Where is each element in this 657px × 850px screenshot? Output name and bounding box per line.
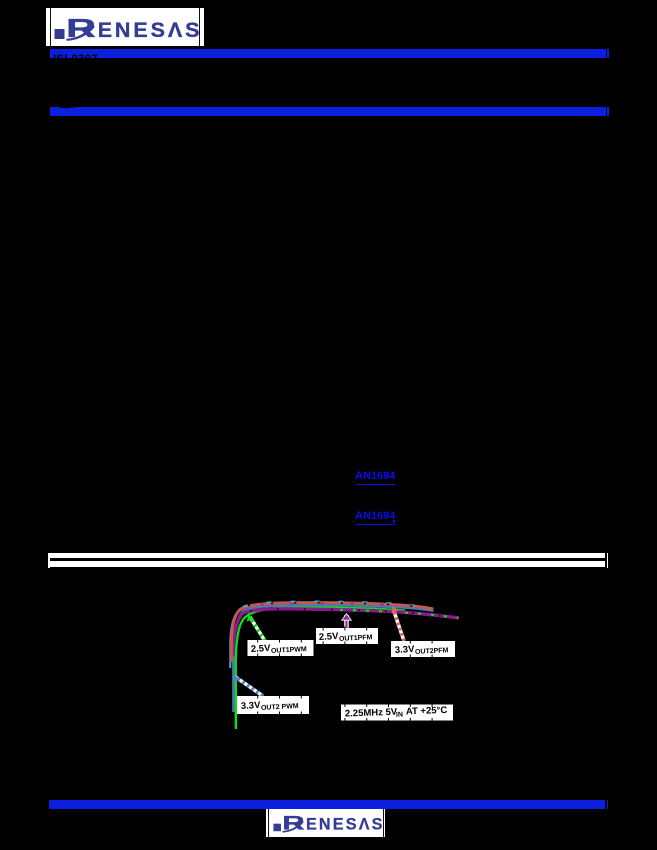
bottom Renesas logo white box [266,809,385,837]
label box 3.3V OUT2 PWM [237,696,309,714]
svg-text:R: R [282,813,305,835]
magenta specks on top [260,603,410,606]
axis tick marks over boxes [257,639,258,643]
svg-text:AT +25°C: AT +25°C [406,705,448,717]
link 2 [355,511,395,525]
curve blue [233,605,433,712]
blue bar 2 [50,107,606,116]
label box 2.5V OUT1PWM [248,640,314,656]
bottom Renesas logotype [267,809,386,837]
svg-text:2.5V: 2.5V [251,643,272,655]
top Renesas logotype [46,8,204,46]
svg-text:ENESΛS: ENESΛS [306,816,385,834]
black data markers on purple [250,609,459,618]
svg-text:3.3V: 3.3V [241,700,262,712]
curve green [236,607,405,729]
svg-text:2.25MHz 5V: 2.25MHz 5V [345,707,398,720]
black data markers on red [248,603,434,610]
curve red [231,603,433,662]
label box 2.5V OUT1PFM [316,628,378,644]
magenta arrow [344,615,349,628]
blue bar 1 [50,49,606,58]
white double rule [50,553,605,558]
svg-text:IN: IN [396,711,403,718]
svg-text:3.3V: 3.3V [395,644,416,656]
curve magenta [233,609,459,656]
link 1 [355,471,395,485]
red dashed arrow [394,610,405,641]
green specks over magenta [340,610,458,618]
label box 3.3V OUT2PFM [391,641,455,657]
curve cyan [230,603,433,668]
bottom blue bar [49,800,605,809]
cyan specks on top [243,601,434,608]
label box 2.25MHz 5VIN AT +25C [341,705,453,721]
green dashed arrow [250,617,265,641]
part number text overlapping bar1 [53,53,98,65]
svg-text:2.5V: 2.5V [319,631,340,643]
blue dashed arrow [236,677,264,696]
top Renesas logo white box [46,8,204,46]
